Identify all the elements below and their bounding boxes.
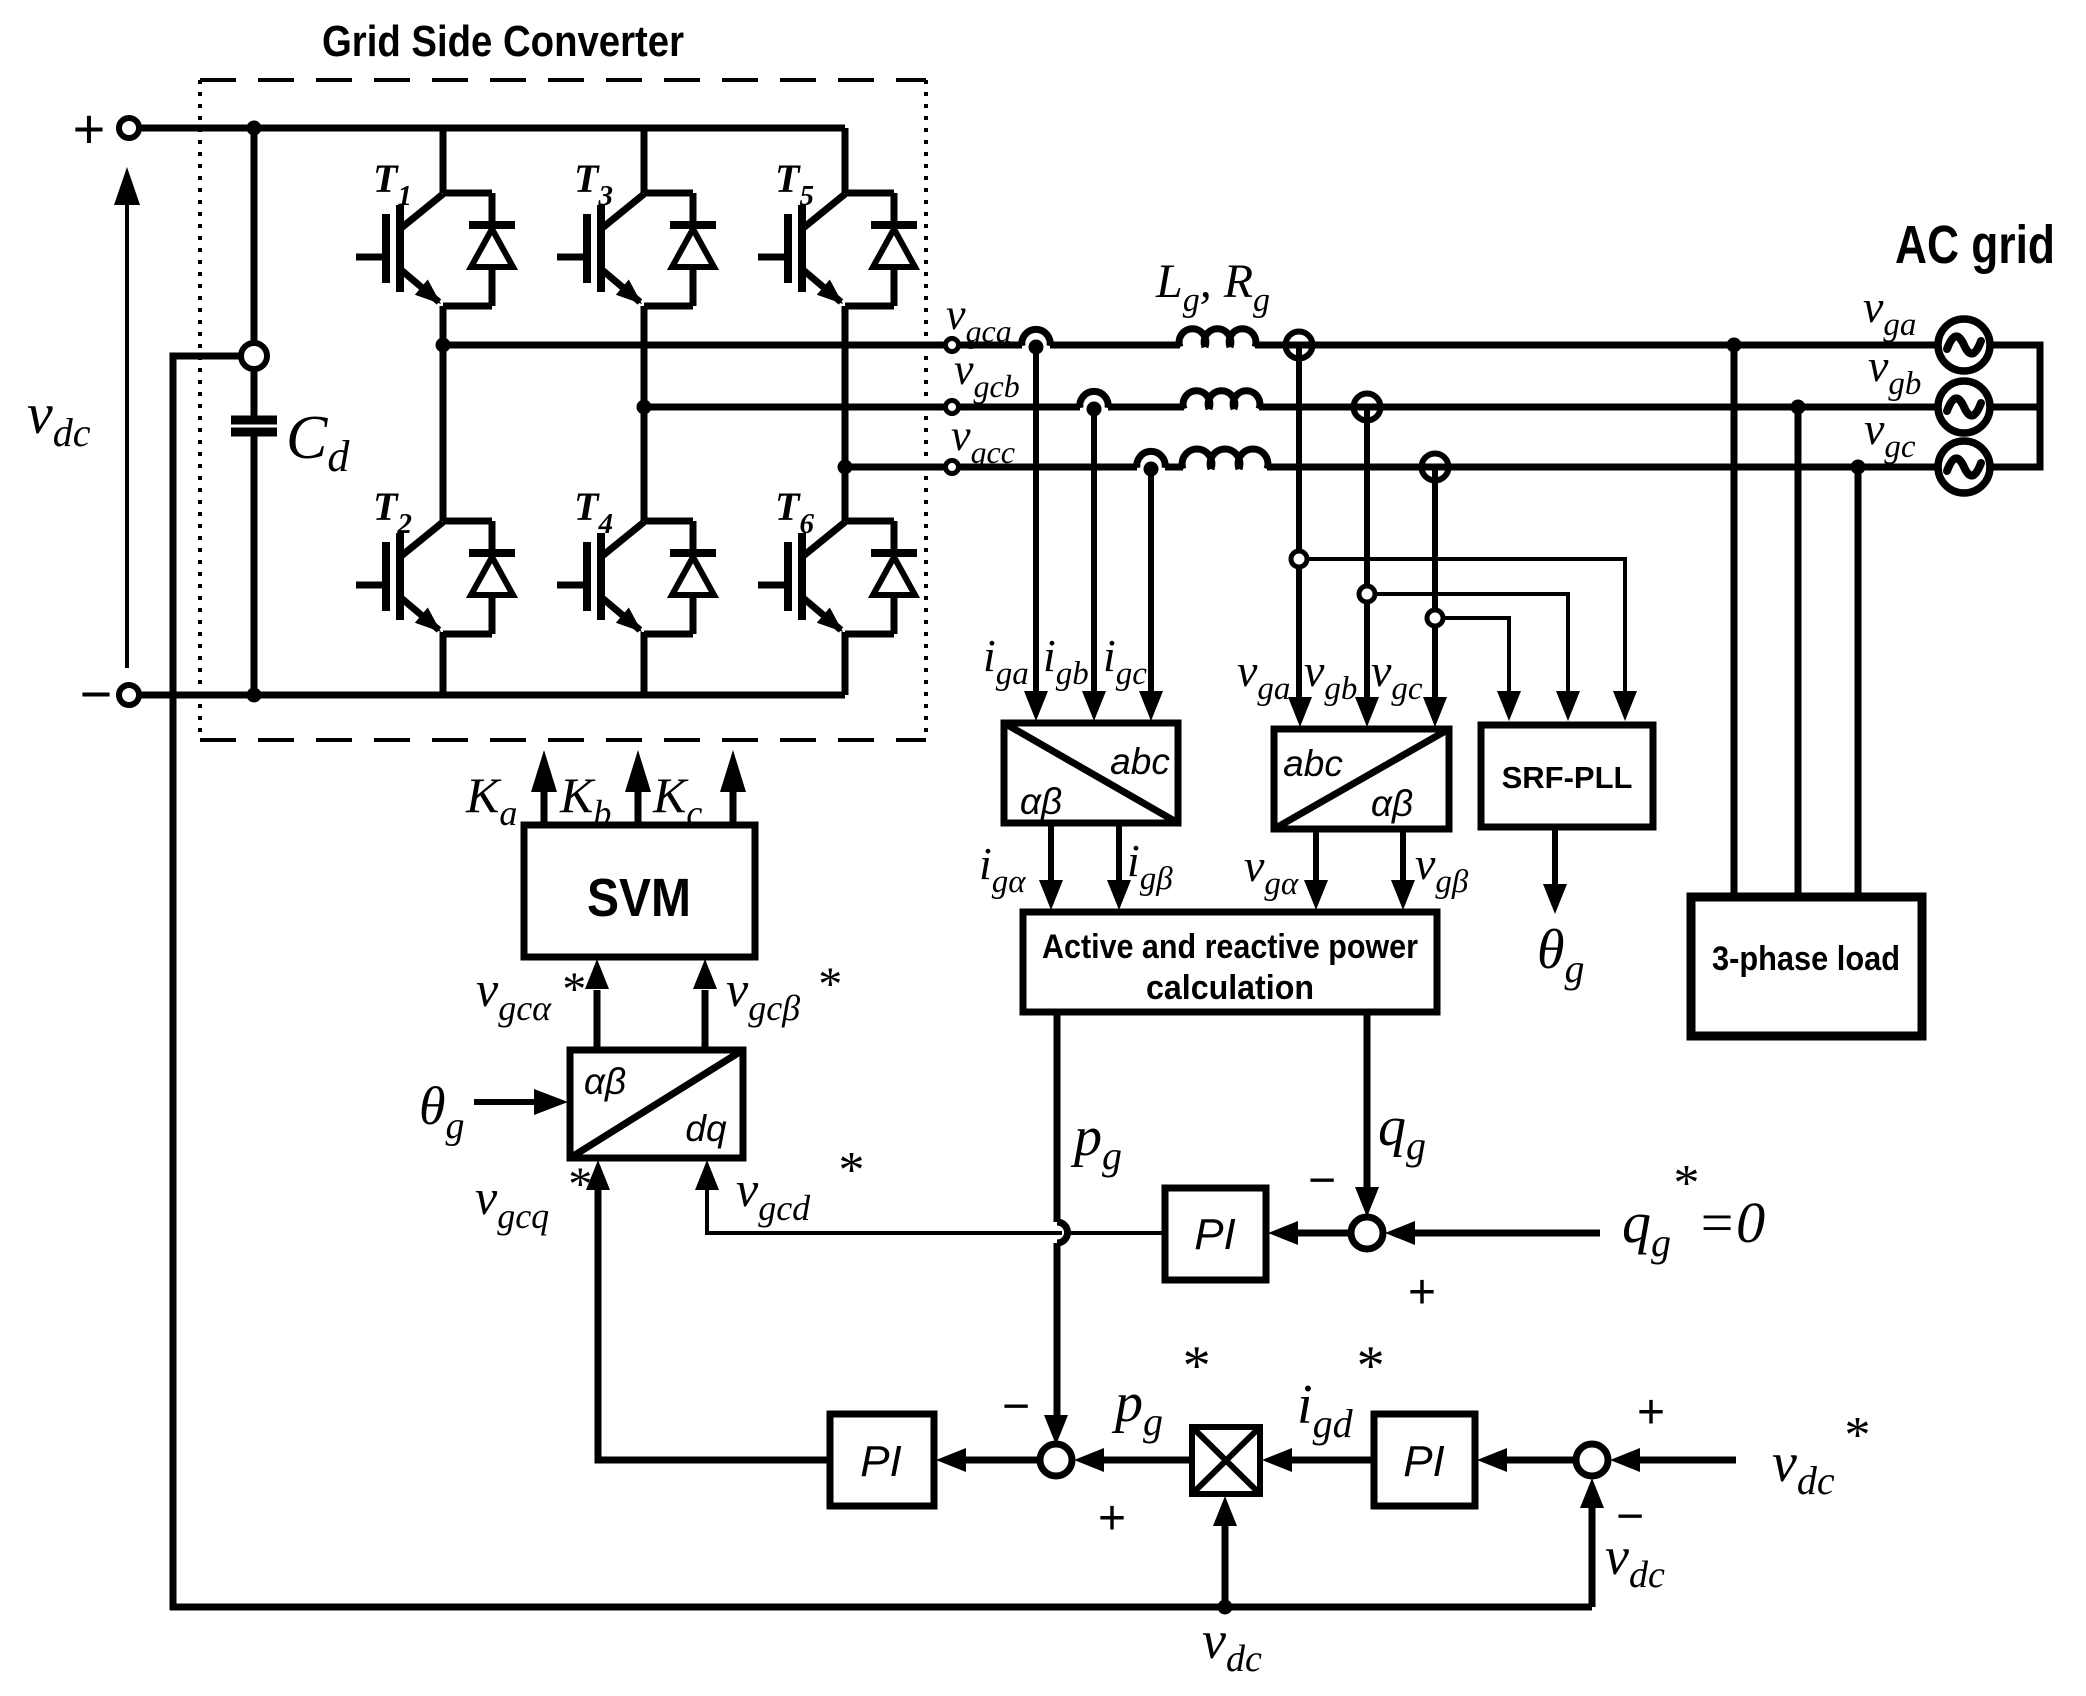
AC source v_gc [1938, 441, 1990, 493]
current sensor i_gb tap [1080, 391, 1108, 416]
svg-text:abc: abc [1110, 741, 1170, 782]
wire v_ga to SRF-PLL [1307, 559, 1637, 721]
svg-text:*: * [836, 1142, 862, 1199]
node phase b output junction [637, 400, 652, 415]
wire leg c collector drop from DC+ [842, 128, 849, 193]
wire leg c emitter to DC- [842, 632, 849, 695]
node voltage sensor v_ga tap [1286, 332, 1313, 359]
node phase c output junction [838, 460, 853, 475]
block PI3 (active power controller) [830, 1414, 934, 1506]
wire v_gcbeta* to SVM [693, 959, 717, 1050]
junction DC- / capacitor [247, 688, 262, 703]
summing junction S3 (v_dc) [1576, 1444, 1608, 1476]
node phase c converter terminal [946, 461, 959, 474]
wire q_g vertical [1355, 1012, 1379, 1217]
multiplier block [1192, 1427, 1260, 1494]
wire theta_g into dq block [474, 1089, 568, 1115]
node phase a converter terminal [946, 339, 959, 352]
inductor L_g phase a [1179, 329, 1256, 347]
wire v_dc feedback into S3 [1580, 1478, 1604, 1607]
wire S1 to PI1 [1268, 1221, 1351, 1245]
wire v_dc bottom feedback line [170, 1604, 1592, 1611]
transistor T2 (IGBT) [356, 521, 492, 634]
wire v_dc* reference into S3 [1610, 1448, 1736, 1472]
wire K_c gate signal [720, 750, 746, 825]
svg-text:*: * [1354, 1335, 1382, 1397]
node v_ga tap to SRF-PLL [1291, 551, 1307, 567]
wire leg a midpoint [440, 306, 447, 521]
terminal + (DC positive) [73, 97, 139, 160]
node DC link sense tap [241, 343, 267, 369]
wire multiplier to S2 (p_g*) [1074, 1448, 1192, 1472]
current sensor i_ga tap [1022, 329, 1050, 354]
v_dc measurement arrow [114, 167, 140, 668]
wire leg b emitter to DC- [641, 632, 648, 695]
svg-text:*: * [560, 963, 584, 1016]
svg-text:αβ: αβ [584, 1061, 626, 1102]
svg-text:dq: dq [685, 1108, 727, 1149]
antiparallel diode of T5 [871, 193, 917, 306]
block abc/alphabeta current transform [1004, 723, 1178, 823]
AC source v_gb [1938, 381, 1990, 433]
wire v_gcq* from PI3 [598, 1455, 830, 1460]
terminal - (DC negative) [80, 662, 139, 725]
summing junction S2 (p_g) [1040, 1444, 1072, 1476]
wire v_gcalpha* to SVM [585, 959, 609, 1050]
block SRF-PLL [1481, 725, 1653, 827]
antiparallel diode of T6 [871, 521, 917, 634]
svg-text:AC grid: AC grid [1895, 215, 2055, 275]
wire v_dc into multiplier [1213, 1496, 1237, 1607]
wire phase a line [443, 342, 1938, 349]
svg-text:Active and reactive power: Active and reactive power [1042, 928, 1418, 966]
block active and reactive power calculation [1023, 912, 1437, 1012]
wire leg a emitter to DC- [440, 632, 447, 695]
inductor L_g phase b [1183, 391, 1260, 409]
wire leg a collector drop from DC+ [440, 128, 447, 193]
node voltage sensor v_gc tap [1422, 454, 1449, 481]
block 3-phase load [1691, 897, 1922, 1036]
junction load tap phase c [1851, 460, 1866, 475]
svg-text:SRF-PLL: SRF-PLL [1502, 760, 1633, 795]
wire phase b line [644, 404, 1938, 411]
transistor T3 (IGBT) [557, 193, 693, 306]
wire v_gc sense drop [1423, 467, 1447, 727]
block SVM [524, 825, 755, 957]
wire i_gbeta [1107, 823, 1131, 910]
wire capacitor branch upper [251, 128, 258, 343]
wire i_gc sense drop [1139, 467, 1163, 721]
svg-text:PI: PI [860, 1437, 902, 1486]
wire v_gcq* into dq block [595, 1184, 602, 1463]
wire q_g* reference into S1 [1385, 1221, 1600, 1245]
node phase b converter terminal [946, 401, 959, 414]
wire v_ga sense drop [1288, 345, 1312, 727]
transistor T5 (IGBT) [758, 193, 894, 306]
svg-text:Grid Side Converter: Grid Side Converter [322, 17, 684, 66]
wire v_gbeta [1391, 829, 1415, 910]
antiparallel diode of T4 [670, 521, 716, 634]
svg-text:+: + [73, 97, 106, 160]
svg-text:SVM: SVM [587, 868, 691, 928]
node voltage sensor v_gb tap [1354, 394, 1381, 421]
junction DC+ / capacitor [247, 121, 262, 136]
svg-text:abc: abc [1283, 743, 1343, 784]
wire phase c line [845, 464, 1938, 471]
wire DC+ bus [139, 125, 845, 132]
current sensor i_gc tap [1137, 451, 1165, 476]
junction v_dc to multiplier [1218, 1600, 1233, 1615]
node v_gb tap to SRF-PLL [1359, 586, 1375, 602]
transistor T1 (IGBT) [356, 193, 492, 306]
wire load phase c drop [1855, 467, 1862, 897]
summing junction S1 (q_g) [1351, 1217, 1383, 1249]
svg-text:−: − [1308, 1154, 1336, 1207]
svg-text:−: − [80, 662, 113, 725]
wire load phase a drop [1731, 345, 1738, 897]
wire v_gb sense drop [1355, 407, 1379, 727]
wire S3 to PI2 [1477, 1448, 1576, 1472]
wire leg b midpoint [641, 306, 648, 521]
wire K_a gate signal [531, 750, 557, 825]
wire i_galpha [1039, 823, 1063, 910]
svg-text:*: * [816, 958, 840, 1011]
svg-text:*: * [1842, 1407, 1868, 1464]
wire theta_g output [1543, 827, 1567, 914]
svg-text:PI: PI [1194, 1210, 1236, 1259]
capacitor Cd [231, 369, 277, 695]
wire v_gc to SRF-PLL [1443, 618, 1521, 721]
antiparallel diode of T3 [670, 193, 716, 306]
wire load phase b drop [1795, 407, 1802, 897]
svg-text:calculation: calculation [1146, 969, 1314, 1007]
block PI2 (DC voltage controller) [1374, 1414, 1475, 1506]
transistor T4 (IGBT) [557, 521, 693, 634]
wire v_galpha [1304, 829, 1328, 910]
node phase a output junction [436, 338, 451, 353]
Grid Side Converter boundary box [200, 80, 926, 740]
wire v_gcd* from PI1 to dq block [707, 1184, 1165, 1233]
svg-text:PI: PI [1403, 1437, 1445, 1486]
wire i_gb sense drop [1082, 407, 1106, 721]
wire PI2 to multiplier (i_gd*) [1262, 1448, 1374, 1472]
junction load tap phase b [1791, 400, 1806, 415]
AC source v_ga [1938, 319, 1990, 371]
svg-text:+: + [1408, 1266, 1436, 1319]
wire DC- bus [139, 692, 845, 699]
svg-text:αβ: αβ [1020, 781, 1062, 822]
block abc/alphabeta voltage transform [1274, 729, 1449, 829]
wire S2 to PI3 [936, 1448, 1040, 1472]
block alphabeta/dq transform [570, 1050, 743, 1158]
svg-text:+: + [1098, 1492, 1126, 1545]
wire leg c midpoint [842, 306, 849, 521]
antiparallel diode of T2 [469, 521, 515, 634]
transistor T6 (IGBT) [758, 521, 894, 634]
svg-text:αβ: αβ [1371, 783, 1413, 824]
inductor L_g phase c [1182, 449, 1268, 469]
wire K_b gate signal [625, 750, 651, 825]
wire p_g vertical with hop [1054, 1012, 1061, 1222]
antiparallel diode of T1 [469, 193, 515, 306]
svg-text:*: * [1180, 1335, 1208, 1397]
svg-text:*: * [566, 1158, 590, 1211]
wire AC grid right bus [1990, 345, 2040, 467]
wire leg b collector drop from DC+ [641, 128, 648, 193]
svg-text:3-phase load: 3-phase load [1712, 940, 1900, 978]
wire v_gb to SRF-PLL [1375, 594, 1580, 721]
junction load tap phase a [1727, 338, 1742, 353]
wire i_ga sense drop [1024, 345, 1048, 721]
svg-text:−: − [1002, 1380, 1030, 1433]
block PI1 (reactive power controller) [1165, 1188, 1266, 1280]
svg-text:+: + [1637, 1386, 1665, 1439]
wire v_dc sense to bottom feedback [173, 356, 241, 1610]
node v_gc tap to SRF-PLL [1427, 610, 1443, 626]
